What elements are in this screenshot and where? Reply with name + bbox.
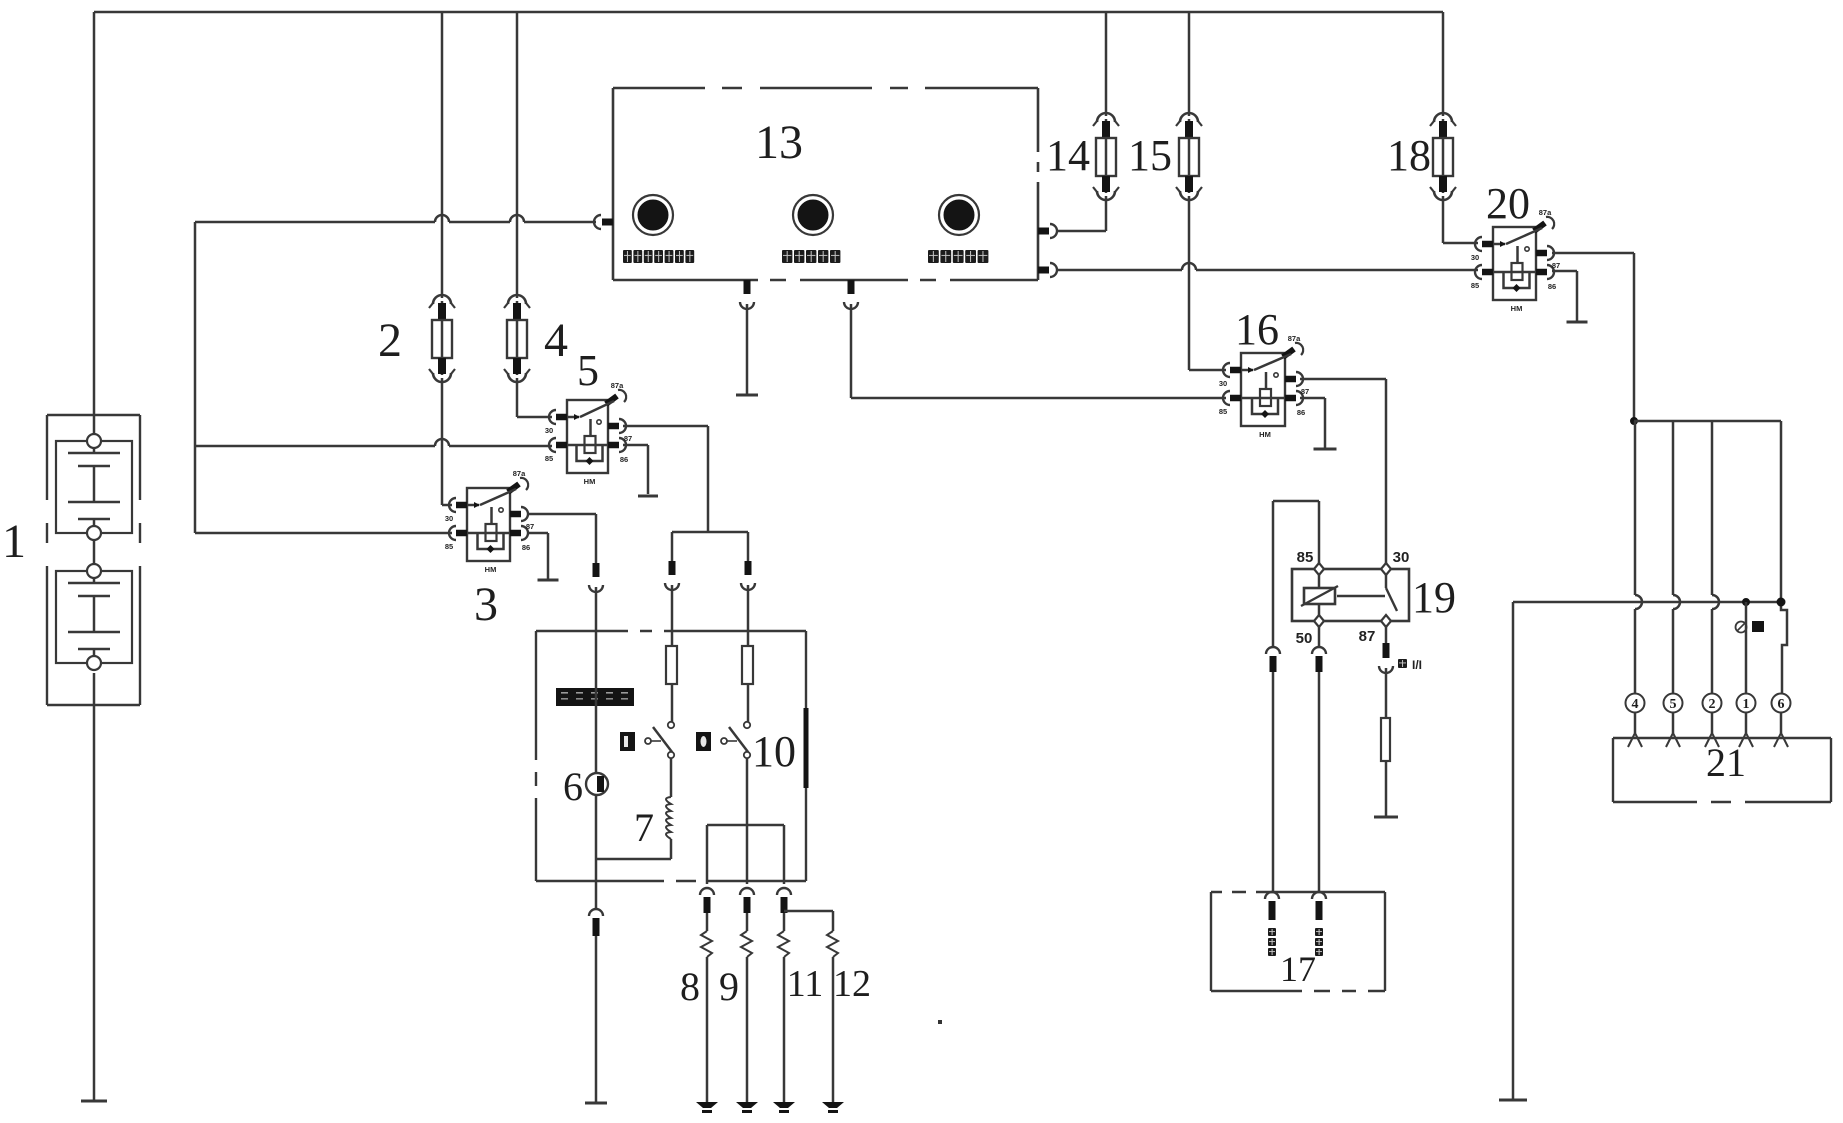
svg-text:10: 10 xyxy=(752,727,796,776)
wire xyxy=(747,684,750,722)
sensor icon on drop 1 xyxy=(1736,622,1747,633)
label L82 xyxy=(1315,928,1323,936)
connector circle 2 xyxy=(1703,694,1722,713)
fork pin at 1746 xyxy=(1739,733,1746,747)
wire relay 19 pin 85 jog to lamp L81 xyxy=(1318,501,1321,565)
svg-text:86: 86 xyxy=(1548,282,1556,291)
wire relay 3 pin 87 output xyxy=(528,513,596,516)
svg-text:16: 16 xyxy=(1235,305,1279,354)
wire glow feed through box xyxy=(595,587,598,773)
fork pin at 1781 xyxy=(1774,733,1781,747)
junction node drop6 xyxy=(1777,598,1785,606)
wire to ground xyxy=(1385,761,1388,816)
svg-text:6: 6 xyxy=(1778,697,1785,712)
pin connector resistor line 8 xyxy=(700,888,714,895)
indicator lamp right in 13 xyxy=(939,195,979,235)
wire relay 16 pin 86 to ground xyxy=(1300,397,1325,400)
connector circle 1 xyxy=(1737,694,1756,713)
resistor 12 xyxy=(827,931,838,957)
svg-text:1: 1 xyxy=(2,515,26,568)
pin connector resistor line 11 xyxy=(777,888,791,895)
svg-text:86: 86 xyxy=(522,543,530,552)
fuse 14 xyxy=(1105,119,1108,193)
fuse 2 xyxy=(441,301,444,375)
svg-text:85: 85 xyxy=(545,454,553,463)
wire box13 lower-right to relay 20 pin 85 xyxy=(1056,269,1182,272)
relay 3 xyxy=(445,469,534,574)
wire fuse 2 riser xyxy=(441,12,444,298)
svg-text:20: 20 xyxy=(1486,179,1530,228)
pin connector L81 xyxy=(1266,647,1280,654)
svg-text:85: 85 xyxy=(1219,407,1227,416)
wires circles to box 21 xyxy=(1634,712,1637,733)
pin connector below 6 xyxy=(589,909,603,916)
pin connector branch A plug xyxy=(669,561,676,575)
svg-text:30: 30 xyxy=(1393,549,1410,566)
wire relay 3 coil feed xyxy=(195,532,452,535)
wire relay 3 pin 86 to ground xyxy=(528,532,548,535)
svg-text:5: 5 xyxy=(577,346,599,395)
box 17 lamp unit xyxy=(1211,892,1385,991)
pin box13 bottom left xyxy=(744,280,751,294)
pin connector lamp feed xyxy=(1383,643,1390,658)
switch branch A xyxy=(668,722,674,728)
pin box13 left xyxy=(594,215,601,229)
fuse 15 xyxy=(1188,119,1191,193)
wire relay 5 pin 87 output xyxy=(623,425,708,428)
svg-text:86: 86 xyxy=(1297,408,1305,417)
wire node A horizontal to box 13 xyxy=(195,221,435,224)
ground relay 20 xyxy=(1567,321,1588,324)
ground relay 5 xyxy=(638,495,658,498)
terminal bar return line xyxy=(1499,1099,1527,1102)
coil 7 xyxy=(666,797,671,839)
label lamp middle (CJK) xyxy=(782,250,792,263)
svg-text:9: 9 xyxy=(719,964,739,1009)
switch icon B xyxy=(696,732,711,751)
wire relay 5 pin 86 to ground xyxy=(623,444,648,447)
wire 6 line to terminal xyxy=(595,936,598,1102)
wire L81 down xyxy=(1272,672,1275,893)
ground resistor 8 xyxy=(696,1102,718,1108)
wire box13 bottom-left stub to terminal xyxy=(746,304,749,394)
svg-text:17: 17 xyxy=(1280,949,1316,989)
svg-text:2: 2 xyxy=(1709,697,1716,712)
svg-text:50: 50 xyxy=(1296,630,1313,647)
svg-text:87a: 87a xyxy=(611,381,624,390)
relay 19 xyxy=(1292,563,1409,627)
svg-text:87: 87 xyxy=(1359,628,1376,645)
label lamp right (CJK) xyxy=(928,250,939,263)
wire below 6 xyxy=(595,795,598,910)
wire distribution header xyxy=(1634,420,1781,423)
box preheat controller (dashed) xyxy=(536,631,809,881)
wire drop 6 with jog xyxy=(1781,421,1787,694)
svg-text:7: 7 xyxy=(634,805,654,850)
wire battery positive riser xyxy=(93,12,96,434)
svg-text:I/I: I/I xyxy=(1412,658,1422,672)
svg-text:3: 3 xyxy=(474,578,498,631)
ground resistor 11 xyxy=(773,1102,795,1108)
wire fuse 4 to relay 5 pin 30 xyxy=(516,378,519,417)
wire return line from bottom xyxy=(1513,601,1781,604)
resistor 11 xyxy=(778,931,789,957)
svg-text:87: 87 xyxy=(624,434,632,443)
svg-text:HM: HM xyxy=(584,477,596,486)
label lamp left (CJK) xyxy=(623,250,632,263)
svg-text:21: 21 xyxy=(1706,740,1746,785)
stray dot xyxy=(938,1020,942,1024)
svg-text:85: 85 xyxy=(445,542,453,551)
wire relay 20 pin 87 output xyxy=(1552,252,1634,255)
wire xyxy=(670,758,673,797)
relay 5 xyxy=(545,381,632,486)
ground relay 16 xyxy=(1314,448,1337,451)
fuse branch B xyxy=(742,646,753,684)
wire relay 19 pin 50 down xyxy=(1318,625,1321,648)
pin connector L82 xyxy=(1312,647,1326,654)
terminal bar battery negative xyxy=(81,1100,107,1103)
wire node A drop on left xyxy=(194,222,197,533)
wire preheat branch header xyxy=(672,531,748,534)
svg-text:HM: HM xyxy=(1511,304,1523,313)
svg-text:5: 5 xyxy=(1670,697,1677,712)
wire branch to resistor 12 xyxy=(784,910,833,913)
svg-text:4: 4 xyxy=(544,314,568,367)
resistor 8 xyxy=(701,931,712,957)
pin connector relay3 output plug xyxy=(593,563,600,577)
wire fuse 18 to relay 20 pin 30 xyxy=(1442,196,1445,243)
svg-text:8: 8 xyxy=(680,964,700,1009)
wire fuse 14 riser xyxy=(1105,12,1108,116)
fork pin at 1712 xyxy=(1705,733,1712,747)
wire fuse 18 riser xyxy=(1442,12,1445,116)
svg-text:15: 15 xyxy=(1128,131,1172,180)
glow plug 6 xyxy=(586,773,608,795)
box 21 connector block xyxy=(1613,738,1831,802)
wire resistor 11 xyxy=(783,913,786,931)
pin box13 right upper xyxy=(1038,228,1049,235)
wire resistor header xyxy=(707,824,784,827)
wire relay 19 pin 87 down xyxy=(1385,625,1388,643)
wire branch B down xyxy=(746,758,749,884)
svg-text:18: 18 xyxy=(1387,131,1431,180)
svg-text:87a: 87a xyxy=(1288,334,1301,343)
wire box13 upper-right to fuse 14 xyxy=(1056,230,1106,233)
switch icon A xyxy=(620,732,635,751)
fork pin at 1673 xyxy=(1666,733,1673,747)
svg-text:4: 4 xyxy=(1632,697,1639,712)
pin box13 bottom right xyxy=(848,280,855,294)
svg-text:87: 87 xyxy=(1301,387,1309,396)
svg-text:87a: 87a xyxy=(1539,208,1552,217)
wire resistor 8 xyxy=(706,913,709,931)
switch 10 xyxy=(744,722,750,728)
svg-text:2: 2 xyxy=(378,314,402,367)
pin connector resistor line 9 xyxy=(740,888,754,895)
wire fuse 4 riser xyxy=(516,12,519,298)
svg-text:30: 30 xyxy=(1219,379,1227,388)
wire box13 bottom-right to relay 16 pin 85 xyxy=(850,304,853,398)
fuse 18 xyxy=(1442,119,1445,193)
fork pin at 1635 xyxy=(1628,733,1635,747)
indicator lamp left in 13 xyxy=(633,195,673,235)
fuse inline lamp xyxy=(1381,718,1390,761)
wire fuse 2 to relay 3 pin 30 xyxy=(441,378,444,505)
svg-text:86: 86 xyxy=(620,455,628,464)
wire relay 5 coil feed xyxy=(195,445,435,448)
svg-text:30: 30 xyxy=(1471,253,1479,262)
relay 20 xyxy=(1471,208,1560,313)
wire drop 2 xyxy=(1711,421,1714,595)
connector circle 6 xyxy=(1772,694,1791,713)
resistor 9 xyxy=(741,931,752,957)
wire drop 4 xyxy=(1634,421,1637,595)
svg-text:14: 14 xyxy=(1046,131,1090,180)
terminal bar line 6 xyxy=(585,1102,607,1105)
indicator lamp middle in 13 xyxy=(793,195,833,235)
wire coil 7 to line 6 xyxy=(670,839,673,859)
wire branch A into box xyxy=(671,585,674,646)
svg-text:30: 30 xyxy=(445,514,453,523)
relay 16 xyxy=(1219,334,1309,439)
ground relay 3 xyxy=(538,579,559,582)
svg-text:HM: HM xyxy=(485,565,497,574)
svg-text:13: 13 xyxy=(755,116,803,169)
label box (CJK black) xyxy=(556,688,634,706)
wire drop 5 xyxy=(1672,421,1675,595)
svg-text:85: 85 xyxy=(1471,281,1479,290)
wire top power rail xyxy=(94,11,1443,14)
pin connector branch B plug xyxy=(745,561,752,575)
terminal bar below box13 xyxy=(736,394,758,397)
svg-text:19: 19 xyxy=(1412,573,1456,622)
pin L82 of box 17 xyxy=(1312,892,1326,899)
fuse 4 xyxy=(516,301,519,375)
wire fuse 15 riser xyxy=(1188,12,1191,116)
wire relay 20 pin 86 to ground xyxy=(1552,270,1577,273)
svg-text:1: 1 xyxy=(1743,697,1750,712)
junction node relay20 output xyxy=(1631,418,1638,425)
label KI/I xyxy=(1398,659,1407,668)
svg-text:85: 85 xyxy=(1297,549,1314,566)
battery 1 xyxy=(47,415,140,705)
svg-text:30: 30 xyxy=(545,426,553,435)
wire fuse 15 to relay 16 pin 30 xyxy=(1188,196,1191,370)
ground resistor 12 xyxy=(822,1102,844,1108)
wire branch B into box xyxy=(747,585,750,646)
svg-text:87a: 87a xyxy=(513,469,526,478)
ground resistor 9 xyxy=(736,1102,758,1108)
pin L81 of box 17 xyxy=(1265,892,1279,899)
wire L82 down xyxy=(1318,672,1321,893)
svg-text:87: 87 xyxy=(1552,261,1560,270)
ground lamp circuit xyxy=(1374,816,1398,819)
svg-text:87: 87 xyxy=(526,522,534,531)
fuse branch A xyxy=(666,646,677,684)
svg-text:HM: HM xyxy=(1259,430,1271,439)
junction node drop1 xyxy=(1743,599,1750,606)
label L81 xyxy=(1268,928,1276,936)
connector circle 4 xyxy=(1626,694,1645,713)
wire to fuse xyxy=(1385,668,1388,718)
wire drop 1 xyxy=(1745,602,1748,694)
pin box13 right lower xyxy=(1038,267,1049,274)
wire xyxy=(671,684,674,722)
svg-text:6: 6 xyxy=(563,764,583,809)
box 13 instrument unit xyxy=(613,88,1038,280)
wire resistor 9 xyxy=(746,913,749,931)
svg-text:11: 11 xyxy=(787,963,824,1005)
wire battery negative drop xyxy=(93,673,96,1101)
wire relay 16 pin 87 to relay 19 pin 30 xyxy=(1300,378,1386,381)
connector circle 5 xyxy=(1664,694,1683,713)
svg-text:12: 12 xyxy=(833,963,871,1005)
